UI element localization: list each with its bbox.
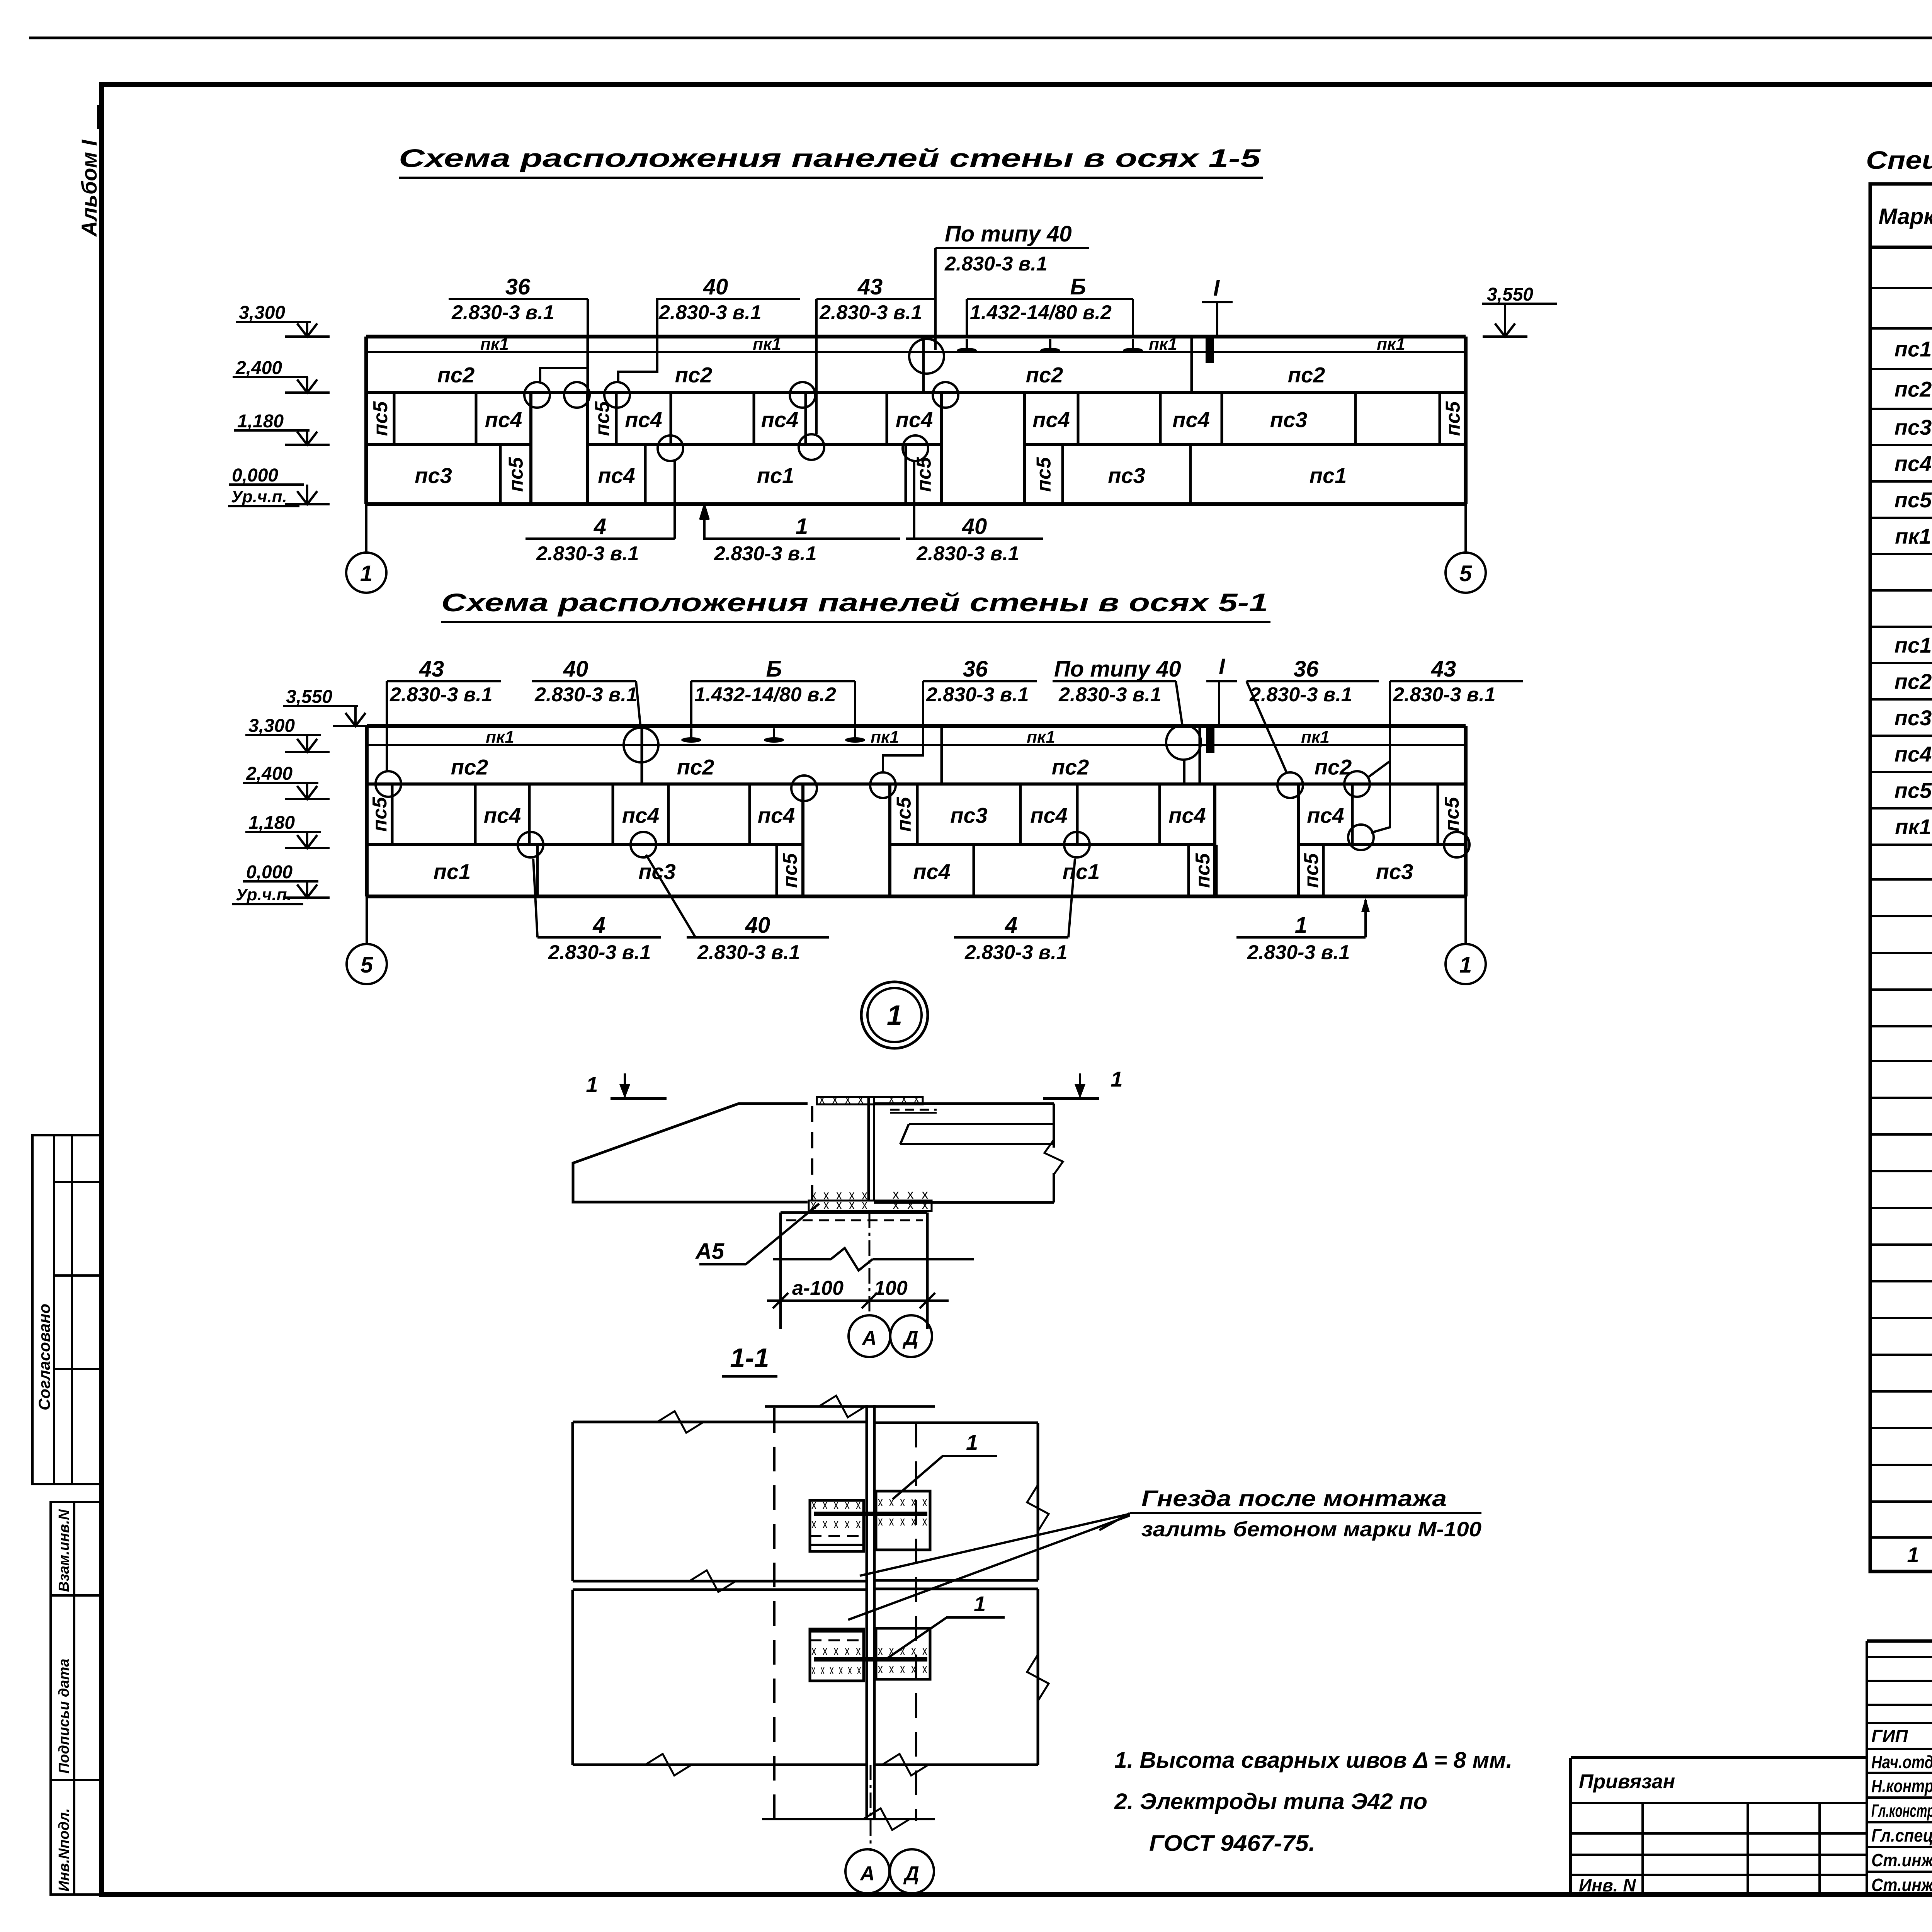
door openings scheme 1-5	[529, 393, 532, 504]
svg-text:2.830-3 в.1: 2.830-3 в.1	[534, 684, 638, 706]
svg-text:пк1: пк1	[1301, 728, 1330, 747]
axis bubble 5 scheme 1-5	[1464, 504, 1467, 553]
svg-text:1: 1	[974, 1592, 986, 1616]
svg-text:1: 1	[887, 1000, 902, 1031]
svg-text:пс3: пс3	[950, 803, 988, 828]
svg-text:пс2: пс2	[451, 755, 488, 779]
svg-text:36: 36	[963, 656, 988, 682]
row line under ПС2 scheme 1-5	[366, 391, 1466, 394]
svg-text:пс4: пс4	[1032, 408, 1070, 432]
svg-text:1: 1	[796, 514, 808, 539]
joint vertical lines (panel side)	[867, 1097, 870, 1201]
svg-text:пс4: пс4	[1895, 742, 1932, 766]
svg-text:пс3: пс3	[1376, 859, 1413, 884]
svg-text:2.830-3 в.1: 2.830-3 в.1	[714, 543, 817, 565]
svg-text:пс1: пс1	[1310, 463, 1347, 488]
svg-text:100: 100	[874, 1277, 908, 1299]
svg-text:Подписьи дата: Подписьи дата	[56, 1659, 72, 1774]
svg-text:1: 1	[966, 1430, 978, 1454]
svg-text:Инв.Nподл.: Инв.Nподл.	[56, 1808, 72, 1891]
svg-text:пс4: пс4	[484, 803, 521, 828]
lower wall panel below node	[781, 1211, 927, 1214]
svg-text:40: 40	[703, 274, 728, 299]
svg-text:пс4: пс4	[896, 408, 933, 432]
svg-text:пс4: пс4	[1172, 408, 1210, 432]
svg-text:пс4: пс4	[758, 803, 795, 828]
node detail bubble 1 (double circle)	[861, 982, 928, 1048]
junction circle at ПК1 joint	[909, 339, 944, 374]
top connection plate with welds	[817, 1097, 923, 1104]
wall outline scheme 1-5	[366, 335, 1466, 338]
bottom row panel cells scheme 1-5	[499, 445, 502, 504]
svg-text:пс3: пс3	[415, 463, 452, 488]
title block: signature table	[1867, 1639, 1932, 1643]
svg-text:пс1: пс1	[757, 463, 794, 488]
svg-text:пс4: пс4	[485, 408, 522, 432]
svg-text:пс5: пс5	[1895, 778, 1932, 803]
svg-text:А5: А5	[695, 1239, 724, 1264]
bottom row panel cells scheme 5-1	[536, 845, 539, 896]
svg-text:пс1: пс1	[1063, 859, 1100, 884]
svg-text:1: 1	[1907, 1543, 1919, 1567]
svg-text:3,550: 3,550	[1487, 284, 1533, 305]
svg-text:пк1: пк1	[871, 728, 899, 747]
svg-text:пс2: пс2	[1895, 377, 1932, 401]
leader of first bottom callout 4	[533, 859, 537, 937]
svg-text:4: 4	[1005, 913, 1017, 938]
svg-text:x x x x x: x x x x x	[878, 1662, 929, 1676]
centre line below section 1-1	[870, 1765, 872, 1851]
svg-text:2.830-3 в.1: 2.830-3 в.1	[548, 941, 651, 964]
svg-text:пк1: пк1	[1895, 524, 1931, 548]
svg-text:пс2: пс2	[1288, 363, 1325, 387]
svg-text:пк1: пк1	[1149, 335, 1177, 354]
svg-text:1: 1	[1295, 913, 1307, 938]
junction circle under callout 40	[604, 382, 630, 408]
svg-text:пс5: пс5	[369, 797, 391, 832]
leader of callout 43 right	[1371, 681, 1390, 833]
junction circle at ПК1 for callout 40	[624, 728, 658, 762]
svg-text:1: 1	[360, 561, 372, 586]
svg-text:Спецификация к схемам располож: Спецификация к схемам расположения панел…	[1866, 146, 1932, 174]
svg-text:пс5: пс5	[1442, 401, 1464, 436]
leader of bottom callout 40	[913, 462, 915, 539]
svg-text:5: 5	[1459, 561, 1472, 586]
svg-text:пс5: пс5	[1895, 488, 1932, 512]
svg-text:x x x x x x: x x x x x x	[811, 1663, 862, 1677]
svg-text:пс5: пс5	[1033, 457, 1055, 492]
junction circles scheme 5-1 misc	[518, 832, 543, 857]
svg-text:x x x x x: x x x x x	[811, 1643, 862, 1658]
svg-text:1: 1	[1111, 1067, 1122, 1091]
svg-text:пс5: пс5	[1441, 797, 1463, 832]
svg-text:пк1: пк1	[753, 335, 781, 354]
leader 1 to lower connection	[885, 1617, 1005, 1660]
svg-text:пс5: пс5	[779, 853, 801, 888]
leader of callout 36 left	[883, 681, 923, 772]
leader arrow of bottom callout 1 scheme 5-1	[1364, 900, 1367, 937]
svg-text:3,300: 3,300	[248, 716, 295, 736]
svg-text:I: I	[1219, 654, 1226, 679]
svg-text:Ст.инж.: Ст.инж.	[1871, 1850, 1932, 1870]
svg-text:2,400: 2,400	[246, 764, 293, 784]
svg-text:пк1: пк1	[1895, 815, 1931, 839]
svg-text:Б: Б	[766, 656, 782, 682]
leader of callout 40 (scheme 5-1)	[636, 681, 641, 728]
lower left panel (section 1-1)	[573, 1588, 867, 1591]
svg-text:2.830-3 в.1: 2.830-3 в.1	[819, 301, 922, 324]
leader of callout 36 right (slanted)	[1247, 681, 1287, 773]
svg-text:пс3: пс3	[1108, 463, 1145, 488]
svg-text:1. Высота сварных швов Δ = 8 м: 1. Высота сварных швов Δ = 8 мм.	[1114, 1748, 1512, 1773]
svg-text:пк1: пк1	[486, 728, 514, 747]
svg-text:36: 36	[1294, 656, 1319, 682]
svg-text:2,400: 2,400	[235, 358, 282, 378]
svg-text:1: 1	[586, 1072, 598, 1097]
svg-text:Б: Б	[1070, 274, 1086, 299]
svg-text:Гнезда после монтажа: Гнезда после монтажа	[1141, 1486, 1447, 1511]
svg-text:36: 36	[505, 274, 531, 299]
svg-text:А: А	[859, 1862, 875, 1885]
svg-text:пс4: пс4	[913, 859, 951, 884]
svg-text:Схема расположения панелей сте: Схема расположения панелей стены в осях …	[399, 144, 1261, 172]
svg-text:пк1: пк1	[480, 335, 509, 354]
leader of callout 43	[815, 299, 818, 434]
svg-text:2.830-3 в.1: 2.830-3 в.1	[916, 543, 1019, 565]
girder with haunch (corbel outline)	[573, 1104, 808, 1202]
leader 1 to upper connection	[893, 1456, 997, 1499]
spec table grid	[1870, 184, 1932, 1571]
outer sheet top edge line	[29, 37, 1932, 39]
svg-text:1,180: 1,180	[248, 813, 295, 833]
junction circle for callout 43 left	[376, 771, 401, 797]
svg-text:пс3: пс3	[1895, 706, 1932, 730]
svg-text:0,000: 0,000	[232, 465, 278, 486]
svg-text:x x x x x: x x x x x	[878, 1643, 929, 1658]
svg-text:Взам.инв.N: Взам.инв.N	[56, 1509, 72, 1592]
svg-text:пс5: пс5	[369, 401, 392, 436]
svg-text:Привязан: Привязан	[1579, 1770, 1675, 1793]
junction circles for callout 43	[790, 382, 815, 408]
svg-text:пс2: пс2	[1052, 755, 1089, 779]
svg-text:5: 5	[361, 952, 373, 978]
junction circle above callout 40	[903, 435, 928, 461]
svg-text:1.432-14/80 в.2: 1.432-14/80 в.2	[970, 301, 1112, 324]
svg-text:x x x x x: x x x x x	[878, 1514, 929, 1529]
svg-text:пс4: пс4	[598, 463, 635, 488]
svg-text:2.830-3 в.1: 2.830-3 в.1	[451, 301, 554, 324]
row line under ПС2 scheme 5-1	[367, 782, 1466, 786]
svg-text:40: 40	[962, 514, 987, 539]
lower embedded connection unit	[810, 1629, 864, 1681]
middle row panel cells scheme 1-5	[393, 393, 396, 445]
svg-text:По типу 40: По типу 40	[1054, 656, 1181, 682]
anchor symbols of callout Б	[966, 339, 968, 350]
svg-text:пс2: пс2	[675, 363, 713, 387]
leader of По типу 40 scheme 5-1	[1176, 681, 1182, 726]
svg-text:Ур.ч.п.: Ур.ч.п.	[236, 885, 292, 904]
svg-text:Ур.ч.п.: Ур.ч.п.	[231, 487, 287, 506]
adjacent panel (right) outline	[874, 1102, 1054, 1105]
svg-text:пс1: пс1	[434, 859, 471, 884]
top break line of panel strip	[765, 1405, 935, 1408]
svg-text:пс4: пс4	[625, 408, 662, 432]
svg-text:пс5: пс5	[505, 457, 527, 492]
svg-text:Ст.инж.: Ст.инж.	[1871, 1875, 1932, 1895]
svg-text:пс4: пс4	[761, 408, 799, 432]
svg-text:пс3: пс3	[1895, 415, 1932, 439]
svg-text:пк1: пк1	[1027, 728, 1055, 747]
svg-text:2.830-3 в.1: 2.830-3 в.1	[1058, 684, 1162, 706]
svg-text:пс4: пс4	[1168, 803, 1206, 828]
hidden edge dashed lines (section 1-1)	[773, 1408, 776, 1821]
slab row line ПК1 scheme 1-5	[366, 351, 1466, 353]
svg-text:2.830-3 в.1: 2.830-3 в.1	[944, 253, 1048, 275]
svg-text:3,300: 3,300	[239, 303, 285, 323]
vertical joint lines (section 1-1)	[866, 1405, 868, 1819]
svg-text:пс2: пс2	[1026, 363, 1063, 387]
junction circle at ПК1 По типу 40	[1166, 725, 1201, 760]
svg-text:пс5: пс5	[893, 797, 915, 832]
svg-text:Альбом I: Альбом I	[77, 139, 101, 237]
svg-text:пс1: пс1	[1895, 337, 1932, 361]
svg-text:I: I	[1213, 276, 1220, 301]
middle row panel cells scheme 5-1	[391, 784, 394, 845]
leader of callout По типу 40	[934, 248, 937, 350]
junction circle under callout 36	[524, 382, 550, 408]
axis circle А (section 1-1)	[845, 1849, 889, 1893]
lower right panel (section 1-1)	[874, 1588, 1038, 1590]
leader of second bottom callout 4	[1068, 859, 1075, 937]
svg-text:40: 40	[745, 913, 770, 938]
svg-text:ГИП: ГИП	[1871, 1726, 1908, 1746]
svg-text:По типу 40: По типу 40	[945, 221, 1072, 247]
leaders from note to recesses	[1099, 1513, 1130, 1530]
svg-text:2. Электроды типа Э42 по: 2. Электроды типа Э42 по	[1114, 1789, 1427, 1814]
svg-text:А: А	[861, 1327, 877, 1349]
svg-text:2.830-3 в.1: 2.830-3 в.1	[1249, 684, 1352, 706]
svg-text:43: 43	[857, 274, 883, 299]
leader of callout 40	[618, 299, 657, 383]
svg-text:Гл.спец.: Гл.спец.	[1871, 1825, 1932, 1845]
svg-text:Согласовано: Согласовано	[35, 1304, 53, 1410]
axis bubble 1 scheme 5-1	[1464, 896, 1467, 944]
svg-text:4: 4	[594, 514, 606, 539]
svg-text:пк1: пк1	[1377, 335, 1405, 354]
dimension line a-100 / 100	[767, 1299, 949, 1302]
row line under middle panels scheme 1-5	[366, 443, 531, 446]
svg-text:пс3: пс3	[1270, 408, 1308, 432]
svg-text:пс4: пс4	[1895, 451, 1932, 476]
svg-text:Нач.отд.: Нач.отд.	[1871, 1752, 1932, 1772]
bay division lines scheme 1-5	[587, 337, 589, 393]
svg-text:2.830-3 в.1: 2.830-3 в.1	[1393, 684, 1496, 706]
svg-text:2.830-3 в.1: 2.830-3 в.1	[697, 941, 800, 964]
title block: left attachment box Привязан	[1571, 1756, 1867, 1759]
svg-text:Инв. N: Инв. N	[1579, 1875, 1636, 1895]
centre line to axis circles	[869, 1213, 871, 1315]
bottom break line of panel strip	[762, 1818, 935, 1820]
wall outline scheme 5-1	[367, 724, 1466, 728]
left margin upper side table	[32, 1135, 101, 1484]
svg-text:2.830-3 в.1: 2.830-3 в.1	[926, 684, 1029, 706]
svg-text:пс4: пс4	[1307, 803, 1344, 828]
axis circle Д (node detail)	[890, 1315, 932, 1357]
svg-text:43: 43	[1431, 656, 1456, 682]
svg-text:Д: Д	[902, 1327, 918, 1349]
svg-text:пс2: пс2	[1895, 669, 1932, 694]
leader of callout 36	[540, 299, 588, 383]
junction circle for 36 left	[870, 772, 896, 798]
svg-text:4: 4	[592, 913, 605, 938]
svg-text:пс1: пс1	[1895, 633, 1932, 657]
svg-text:2.830-3 в.1: 2.830-3 в.1	[536, 543, 639, 565]
upper left panel (section 1-1)	[573, 1421, 867, 1423]
svg-text:пс2: пс2	[437, 363, 475, 387]
svg-text:Д: Д	[903, 1862, 919, 1885]
left margin lower side table	[51, 1502, 101, 1895]
leader arrow of bottom callout 1	[703, 508, 706, 539]
svg-text:2.830-3 в.1: 2.830-3 в.1	[964, 941, 1068, 964]
svg-text:3,550: 3,550	[286, 687, 332, 707]
svg-text:Гл.констр.: Гл.констр.	[1871, 1801, 1932, 1821]
svg-text:a-100: a-100	[792, 1277, 844, 1299]
leader of callout 43 (left)	[386, 681, 388, 771]
svg-text:2.830-3 в.1: 2.830-3 в.1	[389, 684, 493, 706]
break mark in lower panel	[773, 1258, 831, 1260]
upper right panel (section 1-1)	[874, 1422, 1038, 1424]
svg-text:x x x x x: x x x x x	[811, 1517, 862, 1531]
slab row line ПК1 scheme 5-1	[367, 744, 1466, 746]
junction circle for 36 right	[1277, 772, 1303, 798]
anchor symbols of callout Б scheme 5-1	[690, 728, 692, 740]
svg-text:0,000: 0,000	[246, 862, 293, 883]
svg-text:1-1: 1-1	[730, 1343, 769, 1373]
junction circles for 43 right	[1344, 771, 1370, 797]
break mark right side of panel	[1053, 1104, 1055, 1148]
junction circle above callout 4	[658, 435, 683, 461]
junction circles scheme 1-5 misc	[564, 382, 590, 408]
svg-text:Схема расположения панелей сте: Схема расположения панелей стены в осях …	[441, 588, 1268, 617]
svg-text:пс4: пс4	[1030, 803, 1068, 828]
leader of bottom callout 40 scheme 5-1	[646, 855, 696, 937]
svg-text:2.830-3 в.1: 2.830-3 в.1	[658, 301, 762, 324]
bay division lines scheme 5-1	[641, 726, 643, 784]
svg-text:40: 40	[563, 656, 588, 682]
svg-text:ГОСТ 9467-75.: ГОСТ 9467-75.	[1149, 1831, 1315, 1856]
door openings scheme 5-1	[801, 784, 804, 896]
upper embedded connection unit	[810, 1500, 864, 1551]
svg-text:1.432-14/80 в.2: 1.432-14/80 в.2	[694, 684, 836, 706]
svg-text:x x x x x: x x x x x	[811, 1497, 862, 1512]
svg-text:пс2: пс2	[677, 755, 714, 779]
svg-text:пс5: пс5	[1192, 853, 1214, 888]
row line under middle panels scheme 5-1	[367, 843, 803, 846]
hidden joint edge (dashed)	[811, 1106, 813, 1200]
svg-text:Марка: Марка	[1878, 204, 1932, 229]
svg-text:x x x x x: x x x x x	[878, 1495, 929, 1509]
svg-text:пс5: пс5	[1300, 853, 1323, 888]
svg-text:1,180: 1,180	[237, 411, 284, 432]
svg-text:2.830-3 в.1: 2.830-3 в.1	[1247, 941, 1350, 964]
svg-text:x x x x: x x x x	[819, 1092, 866, 1107]
bottom connection plate with welds	[809, 1201, 932, 1211]
svg-text:1: 1	[1459, 952, 1472, 978]
svg-text:залить бетоном марки М-100: залить бетоном марки М-100	[1141, 1518, 1481, 1541]
svg-text:пс4: пс4	[622, 803, 660, 828]
svg-text:x x x: x x x	[893, 1197, 930, 1212]
leader of bottom callout 4	[673, 461, 676, 539]
axis bubble 5 scheme 5-1	[366, 896, 368, 944]
axis bubble 1 scheme 1-5	[365, 504, 367, 553]
svg-text:43: 43	[419, 656, 444, 682]
svg-text:Н.контр.: Н.контр.	[1871, 1776, 1932, 1796]
axis circle А (node detail)	[849, 1315, 890, 1357]
axis circle Д (section 1-1)	[890, 1849, 934, 1893]
